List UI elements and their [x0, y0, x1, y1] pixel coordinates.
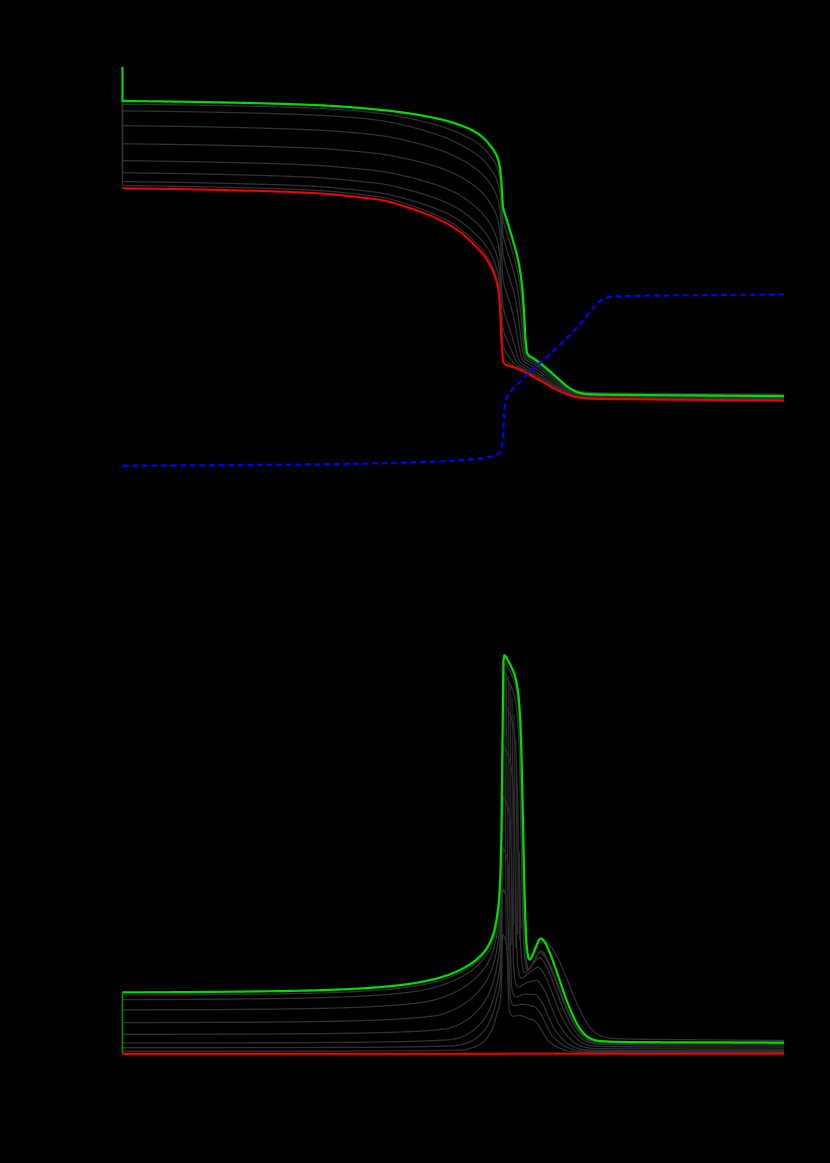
bottom panel red baseline curve: [123, 1053, 785, 1055]
top panel gray curve 8: [123, 67, 785, 400]
top panel gray curve 6: [123, 67, 785, 400]
top panel gray curve 7: [123, 67, 785, 400]
bottom panel gray curve 6: [123, 848, 785, 1054]
bottom panel gray curve 4: [123, 746, 785, 1054]
bottom panel green curve with ignition spike: [123, 655, 785, 1042]
top panel gray curve 2: [123, 67, 785, 397]
top panel green curve (highest of family): [123, 67, 785, 396]
bottom panel gray curve 5: [123, 796, 785, 1054]
top panel gray curve 1: [123, 67, 785, 396]
bottom panel gray curve 1: [123, 662, 785, 1054]
top panel blue dashed curve: [123, 295, 785, 466]
top panel gray curve 4: [123, 67, 785, 398]
bottom panel gray curve 8: [123, 935, 785, 1054]
bottom panel spike interior hatch lines: [504, 664, 521, 950]
top panel gray curve 3: [123, 67, 785, 397]
top panel red curve (lowest of family): [123, 188, 785, 400]
top panel gray curve 5: [123, 67, 785, 399]
bottom panel green curve initial vertical: [122, 992, 124, 1053]
bottom panel gray curve 2: [123, 674, 785, 1054]
bottom panel gray tail line above green: [533, 942, 784, 1041]
top panel gray tail line above green: [566, 386, 784, 394]
bottom panel gray curve 3: [123, 703, 785, 1054]
bottom panel gray curve 7: [123, 889, 785, 1054]
